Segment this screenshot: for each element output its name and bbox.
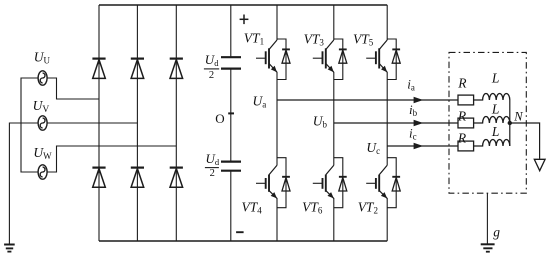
- svg-text:Ud: Ud: [205, 52, 219, 68]
- svg-text:L: L: [491, 124, 500, 139]
- svg-text:g: g: [493, 225, 500, 240]
- svg-text:VT1: VT1: [244, 31, 264, 47]
- svg-text:VT5: VT5: [353, 31, 374, 47]
- svg-text:UV: UV: [33, 98, 50, 115]
- svg-text:VT3: VT3: [304, 31, 325, 47]
- svg-text:VT4: VT4: [242, 200, 263, 216]
- svg-text:R: R: [457, 109, 467, 124]
- svg-text:VT6: VT6: [302, 200, 323, 216]
- svg-text:R: R: [457, 76, 467, 91]
- svg-text:ic: ic: [409, 126, 417, 142]
- svg-text:2: 2: [209, 70, 214, 81]
- svg-text:O: O: [215, 111, 224, 126]
- svg-text:N: N: [513, 110, 523, 124]
- svg-text:ib: ib: [409, 102, 418, 118]
- svg-text:2: 2: [210, 168, 215, 179]
- svg-text:ia: ia: [407, 77, 415, 93]
- svg-text:Ud: Ud: [206, 151, 220, 167]
- svg-text:UU: UU: [34, 49, 51, 65]
- svg-text:Ub: Ub: [313, 114, 328, 130]
- svg-text:Ua: Ua: [253, 93, 267, 109]
- svg-text:L: L: [491, 102, 500, 117]
- svg-text:UW: UW: [33, 145, 52, 161]
- svg-text:VT2: VT2: [358, 200, 378, 216]
- svg-text:Uc: Uc: [366, 140, 380, 156]
- svg-text:L: L: [491, 70, 500, 85]
- svg-text:R: R: [457, 131, 467, 146]
